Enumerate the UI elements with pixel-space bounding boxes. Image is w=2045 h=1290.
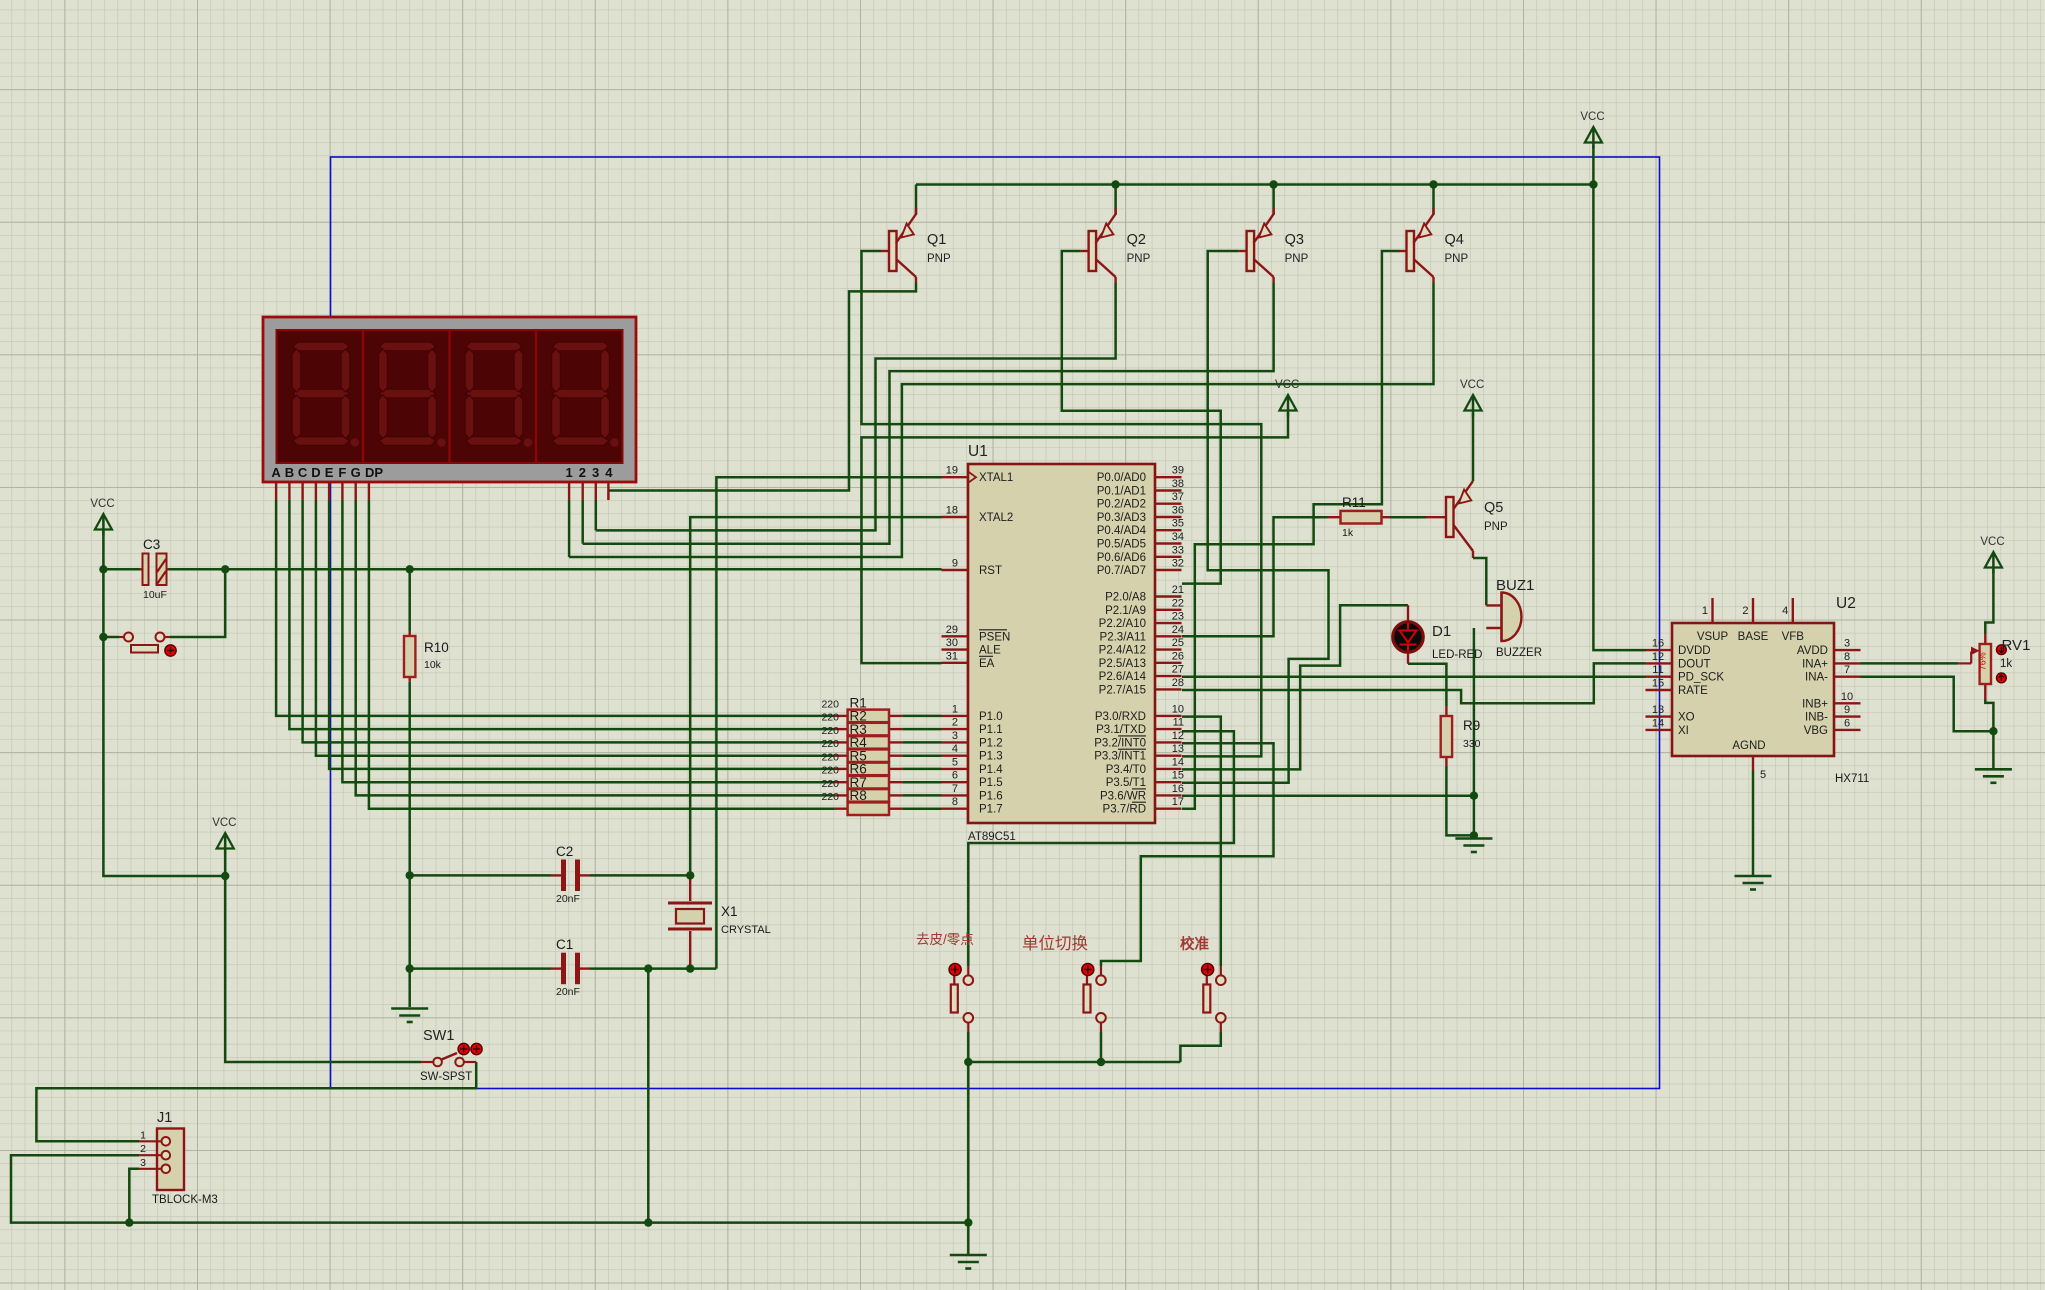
svg-text:P3.5/T1: P3.5/T1 [1106,777,1146,789]
wire btn3 bottom [1180,1032,1220,1062]
wire Q3 collector net [583,283,1274,544]
svg-text:220: 220 [821,791,839,803]
buzzer BUZ1 [1486,604,1503,606]
svg-text:PNP: PNP [1484,521,1508,533]
svg-text:30: 30 [946,637,958,649]
svg-text:16: 16 [1172,783,1184,795]
wire C2 left [410,874,551,877]
svg-text:AT89C51: AT89C51 [968,831,1016,843]
wire reset btn left [103,636,119,639]
svg-text:1k: 1k [2000,658,2012,670]
ground U2 AGND [1735,875,1772,878]
push button 1 (tare/zero) [967,966,969,975]
wire J1 pin2 net [11,1155,968,1222]
sheet border [331,157,1660,1089]
svg-text:6: 6 [1844,717,1850,729]
svg-text:14: 14 [1652,717,1664,729]
wire RST net [103,568,139,571]
wire D1 top net P3.4 [1182,605,1408,769]
svg-text:BUZZER: BUZZER [1496,647,1542,659]
svg-text:27: 27 [1172,664,1184,676]
svg-text:P3.2/INT0: P3.2/INT0 [1094,737,1146,749]
wire RST net C3 to U1 [169,568,942,571]
svg-text:4: 4 [605,465,613,480]
junction dots [99,565,107,573]
svg-text:37: 37 [1172,491,1184,503]
wire BUZ1 bottom P3.6 [1473,628,1476,835]
svg-text:Q2: Q2 [1127,232,1146,248]
svg-text:P2.0/A8: P2.0/A8 [1105,592,1146,604]
svg-text:31: 31 [946,650,958,662]
svg-text:1: 1 [952,703,958,715]
svg-text:P2.4/A12: P2.4/A12 [1099,645,1146,657]
svg-text:VSUP: VSUP [1697,631,1729,643]
transistor Q4 [1407,231,1415,271]
svg-text:P2.5/A13: P2.5/A13 [1099,658,1146,670]
wire VCC top rail [916,183,1593,186]
svg-text:P0.6/AD6: P0.6/AD6 [1097,552,1146,564]
svg-text:P0.1/AD1: P0.1/AD1 [1097,486,1146,498]
svg-text:CRYSTAL: CRYSTAL [721,924,771,936]
svg-text:P1.1: P1.1 [979,724,1003,736]
VCC symbol top-right [1585,127,1602,143]
wire 7seg segment A net [276,500,835,716]
wire RV1 bottom [1985,699,1993,769]
svg-text:P1.7: P1.7 [979,804,1003,816]
svg-text:P2.3/A11: P2.3/A11 [1100,631,1146,643]
svg-text:去皮/零点: 去皮/零点 [916,932,974,947]
svg-text:C3: C3 [143,537,160,552]
svg-text:DOUT: DOUT [1678,658,1711,670]
svg-text:PNP: PNP [1445,253,1469,265]
wire Q3 base net [1182,251,1329,783]
resistor R6 220 [835,781,848,783]
svg-text:17: 17 [1172,796,1184,808]
wire 7seg segment B net [289,500,835,729]
wire XTAL1 net [716,477,941,968]
svg-text:D: D [311,465,320,480]
wire R2 to P1.1 [902,728,941,731]
svg-text:VCC: VCC [90,498,114,510]
VCC symbol EA [1280,395,1297,411]
svg-text:15: 15 [1172,770,1184,782]
svg-text:P1.0: P1.0 [979,711,1003,723]
svg-text:76%: 76% [1977,652,1987,670]
svg-text:P3.1/TXD: P3.1/TXD [1096,724,1146,736]
svg-text:AVDD: AVDD [1797,645,1828,657]
VCC symbol RV1 [1985,552,2002,568]
svg-text:1: 1 [140,1129,146,1141]
wire btn2 bottom [1100,1032,1103,1062]
svg-text:P1.3: P1.3 [979,751,1003,763]
LED D1 LED-RED [1407,605,1409,623]
connector J1 TBLOCK-M3 [157,1129,184,1191]
svg-text:G: G [351,465,361,480]
svg-text:R9: R9 [1463,718,1480,733]
wire 7seg segment G net [356,500,835,795]
wire 7seg segment F net [342,500,835,782]
svg-text:P2.6/A14: P2.6/A14 [1099,671,1147,683]
IC U2 HX711 [1672,623,1834,756]
svg-text:VCC: VCC [1980,536,2004,548]
svg-text:P2.2/A10: P2.2/A10 [1099,618,1146,630]
svg-text:RST: RST [979,565,1002,577]
wire P2.6 to PD_SCK [1182,675,1646,678]
svg-text:1k: 1k [1342,527,1354,539]
svg-text:23: 23 [1172,611,1184,623]
transistor Q3 [1247,231,1255,271]
svg-text:2: 2 [140,1143,146,1155]
svg-text:8: 8 [1844,651,1850,663]
svg-text:P2.1/A9: P2.1/A9 [1105,605,1146,617]
wire btn1 bottom [967,1032,970,1223]
ground RV1 [1975,768,2012,771]
svg-text:220: 220 [821,765,839,777]
svg-text:R11: R11 [1342,495,1366,510]
ground R9/BUZ [1455,837,1492,840]
wire gnd bottom stem [967,1223,970,1254]
svg-text:10k: 10k [424,659,442,671]
svg-text:9: 9 [952,558,958,570]
push button 3 (calibrate) [1220,966,1222,975]
svg-text:330: 330 [1463,738,1481,750]
svg-text:BUZ1: BUZ1 [1496,577,1534,594]
svg-text:C1: C1 [556,937,573,952]
resistor R8 220 [835,808,848,810]
wire VCC right riser to DVDD [1593,145,1645,650]
wire P3.6 row [1182,794,1474,797]
wire 7seg segment E net [329,500,835,769]
svg-text:PD_SCK: PD_SCK [1678,672,1724,684]
wire J1 pin3 net [129,1169,139,1223]
svg-text:33: 33 [1172,544,1184,556]
svg-text:13: 13 [1172,743,1184,755]
wire C2 right [590,874,690,877]
svg-text:P3.7/RD: P3.7/RD [1103,804,1146,816]
svg-text:DP: DP [365,465,383,480]
wire 7seg segment D net [316,500,835,756]
wire Q4 base net [1182,251,1399,809]
svg-text:Q5: Q5 [1484,500,1503,516]
svg-text:VCC: VCC [212,817,236,829]
svg-text:PNP: PNP [1127,253,1151,265]
svg-text:E: E [325,465,334,480]
transistor Q5 [1446,497,1454,537]
svg-text:10uF: 10uF [143,589,167,601]
svg-text:34: 34 [1172,531,1184,543]
svg-text:36: 36 [1172,505,1184,517]
svg-text:RV1: RV1 [2002,637,2031,654]
svg-text:5: 5 [1760,769,1766,781]
IC U1 AT89C51 [968,464,1155,823]
svg-text:38: 38 [1172,478,1184,490]
svg-text:EA: EA [979,658,995,670]
wire RV1 top [1985,570,1993,634]
svg-text:28: 28 [1172,677,1184,689]
svg-text:Q4: Q4 [1445,232,1464,248]
wire Q1 emitter [915,185,918,215]
resistor R2 220 [835,728,848,730]
svg-text:12: 12 [1652,651,1664,663]
svg-text:220: 220 [821,698,839,710]
svg-text:X1: X1 [721,904,738,919]
wire buttons bus [968,1061,1180,1064]
svg-text:14: 14 [1172,756,1184,768]
svg-text:XTAL1: XTAL1 [979,472,1013,484]
svg-text:XTAL2: XTAL2 [979,512,1013,524]
svg-text:INB+: INB+ [1802,698,1828,710]
wire R8 to P1.7 [902,807,941,810]
svg-text:SW-SPST: SW-SPST [420,1071,472,1083]
svg-text:7: 7 [1844,664,1850,676]
svg-text:P3.3/INT1: P3.3/INT1 [1094,751,1146,763]
wire digit2 net [581,500,584,544]
svg-text:INA-: INA- [1805,672,1828,684]
wire Q5 emitter VCC [1472,413,1475,481]
svg-text:HX711: HX711 [1835,773,1869,785]
resistor R1 220 [835,715,848,717]
svg-text:TBLOCK-M3: TBLOCK-M3 [152,1194,218,1206]
wire VCC left rail [103,531,225,876]
capacitor C3 10uF [140,568,148,570]
wire C1 right [590,967,716,970]
svg-text:3: 3 [140,1157,146,1169]
wire SW1 right down [36,1062,476,1141]
ground bottom bus [950,1254,987,1257]
svg-text:PNP: PNP [1285,253,1309,265]
wire Q4 emitter [1432,185,1435,215]
svg-text:20nF: 20nF [556,893,580,905]
svg-text:P0.2/AD2: P0.2/AD2 [1097,499,1146,511]
svg-text:5: 5 [952,756,958,768]
wire btn1 riser P3.1 [968,731,1234,966]
svg-text:C2: C2 [556,844,573,859]
svg-text:16: 16 [1652,638,1664,650]
wire C1 left [410,967,551,970]
svg-text:R10: R10 [424,640,449,655]
wire btn2 riser P3.2 [1101,743,1274,966]
svg-text:10: 10 [1841,691,1853,703]
resistor R4 220 [835,755,848,757]
resistor R3 220 [835,741,848,743]
svg-text:35: 35 [1172,518,1184,530]
svg-text:29: 29 [946,624,958,636]
svg-text:Q1: Q1 [927,232,946,248]
svg-text:32: 32 [1172,558,1184,570]
wire digit1 net [568,500,571,557]
resistor R5 220 [835,768,848,770]
svg-text:VCC: VCC [1460,379,1484,391]
svg-text:220: 220 [821,778,839,790]
svg-text:SW1: SW1 [423,1028,454,1044]
svg-text:4: 4 [1782,605,1788,617]
transistor Q2 [1089,231,1097,271]
wire btn3 riser P3.0 [1182,717,1221,966]
svg-text:XO: XO [1678,712,1695,724]
svg-text:J1: J1 [157,1110,172,1126]
svg-text:11: 11 [1173,717,1184,729]
svg-text:P3.0/RXD: P3.0/RXD [1095,711,1146,723]
push button 2 (unit switch) [1100,966,1102,975]
svg-text:21: 21 [1172,584,1184,596]
push switch (reset) [119,636,124,638]
transistor Q1 [889,231,897,271]
svg-text:3: 3 [592,465,599,480]
svg-text:R8: R8 [850,788,867,803]
svg-text:9: 9 [1844,704,1850,716]
svg-text:RATE: RATE [1678,685,1708,697]
svg-text:P0.4/AD4: P0.4/AD4 [1097,525,1147,537]
svg-text:XI: XI [1678,725,1689,737]
wire Q3 emitter [1272,185,1275,215]
svg-text:6: 6 [952,770,958,782]
svg-text:P3.4/T0: P3.4/T0 [1106,764,1146,776]
potentiometer RV1 1k [1984,633,1986,644]
svg-text:18: 18 [946,505,958,517]
svg-text:15: 15 [1652,678,1664,690]
wire 7seg segment C net [303,500,835,742]
wire Q2 base net [1062,251,1221,584]
svg-text:P1.4: P1.4 [979,764,1003,776]
svg-text:20nF: 20nF [556,986,580,998]
wire INA+ net [1861,662,1959,665]
svg-text:A: A [271,465,281,480]
svg-text:4: 4 [952,743,958,755]
svg-text:26: 26 [1172,650,1184,662]
svg-text:2: 2 [579,465,586,480]
svg-text:1: 1 [1702,605,1708,617]
svg-text:220: 220 [821,738,839,750]
svg-text:D1: D1 [1432,623,1451,640]
resistor R10 10k [409,631,411,636]
svg-text:24: 24 [1172,624,1184,636]
svg-text:BASE: BASE [1738,631,1769,643]
svg-text:U1: U1 [968,443,988,460]
svg-text:13: 13 [1652,704,1664,716]
wire INA- net [1861,677,1994,732]
svg-text:12: 12 [1172,730,1184,742]
wire Q2 emitter [1114,185,1117,215]
wire Q1 base net [862,251,1262,756]
wire R10 top [408,569,411,631]
svg-text:P0.0/AD0: P0.0/AD0 [1097,472,1146,484]
svg-text:PSEN: PSEN [979,631,1010,643]
svg-text:2: 2 [952,717,958,729]
svg-text:DVDD: DVDD [1678,645,1711,657]
svg-text:P1.6: P1.6 [979,790,1003,802]
svg-text:INA+: INA+ [1802,658,1828,670]
VCC symbol Q5 [1465,395,1482,411]
svg-text:Q3: Q3 [1285,232,1304,248]
svg-text:P3.6/WR: P3.6/WR [1100,790,1146,802]
svg-text:U2: U2 [1836,595,1856,612]
svg-text:P1.5: P1.5 [979,777,1003,789]
svg-text:VBG: VBG [1804,725,1828,737]
wire R4 to P1.3 [902,754,941,757]
svg-text:39: 39 [1172,465,1184,477]
svg-text:P1.2: P1.2 [979,737,1003,749]
svg-text:B: B [285,465,294,480]
svg-text:P0.7/AD7: P0.7/AD7 [1097,565,1146,577]
wire Q4 collector net [569,283,1433,557]
svg-text:19: 19 [946,465,958,477]
svg-text:8: 8 [952,796,958,808]
svg-text:单位切换: 单位切换 [1022,934,1088,953]
svg-text:VCC: VCC [1580,111,1604,123]
wire reset btn right [170,569,225,637]
svg-text:10: 10 [1172,703,1184,715]
svg-text:C: C [298,465,308,480]
wire D1 bottom to R9 [1408,664,1446,706]
svg-text:11: 11 [1652,664,1663,676]
wire VCC2 to SW1 [225,851,421,1062]
wire R11 to Q5 base [1390,516,1426,519]
7-segment display DS1 [263,317,636,482]
wire 7seg segment DP net [369,500,835,809]
wire EA-VCC net [862,413,1289,663]
wire U2 AGND [1752,770,1755,875]
svg-text:22: 22 [1172,597,1184,609]
svg-text:3: 3 [952,730,958,742]
wire R7 to P1.6 [902,794,941,797]
svg-text:1: 1 [565,465,572,480]
svg-text:VCC: VCC [1275,379,1299,391]
svg-text:F: F [338,465,346,480]
resistor R9 330 [1445,706,1447,716]
svg-text:25: 25 [1172,637,1184,649]
svg-text:INB-: INB- [1805,712,1828,724]
wire XTAL2 net [690,517,941,875]
wire P2.7 to DOUT [1182,663,1646,703]
svg-text:P2.7/A15: P2.7/A15 [1099,684,1146,696]
crystal X1 [689,875,691,901]
svg-text:P0.3/AD3: P0.3/AD3 [1097,512,1146,524]
svg-text:7: 7 [952,783,958,795]
resistor R11 1k [1328,516,1341,518]
wire R5 to P1.4 [902,768,941,771]
wire Q2 collector net [596,283,1116,530]
svg-text:3: 3 [1844,638,1850,650]
svg-text:VFB: VFB [1782,631,1805,643]
VCC symbol left [95,514,112,530]
svg-text:AGND: AGND [1732,740,1765,752]
wire R10 bottom to gnd [408,682,411,1007]
capacitor C1 20nF [551,967,562,969]
wire R6 to P1.5 [902,781,941,784]
ground R10/C1/C2 [391,1007,428,1010]
wire R1 to P1.0 [902,715,941,718]
svg-text:220: 220 [821,712,839,724]
wire R3 to P1.2 [902,741,941,744]
svg-text:220: 220 [821,725,839,737]
wire digit4 net [607,491,610,501]
svg-text:ALE: ALE [979,645,1001,657]
svg-text:220: 220 [821,751,839,763]
svg-text:LED-RED: LED-RED [1432,649,1482,661]
wire Q1 collector net [608,283,916,491]
VCC symbol left-mid [217,833,234,849]
wire P2.3 to R11 [1182,517,1328,636]
svg-text:PNP: PNP [927,253,951,265]
wire digit3 net [595,500,598,530]
svg-text:校准: 校准 [1180,935,1209,953]
wire R9 bottom to gnd [1446,766,1474,835]
switch SW1 SW-SPST [421,1061,433,1063]
svg-text:2: 2 [1742,605,1748,617]
wire Q5 collector to BUZ1 [1473,558,1486,605]
capacitor C2 20nF [551,874,562,876]
resistor R7 220 [835,794,848,796]
